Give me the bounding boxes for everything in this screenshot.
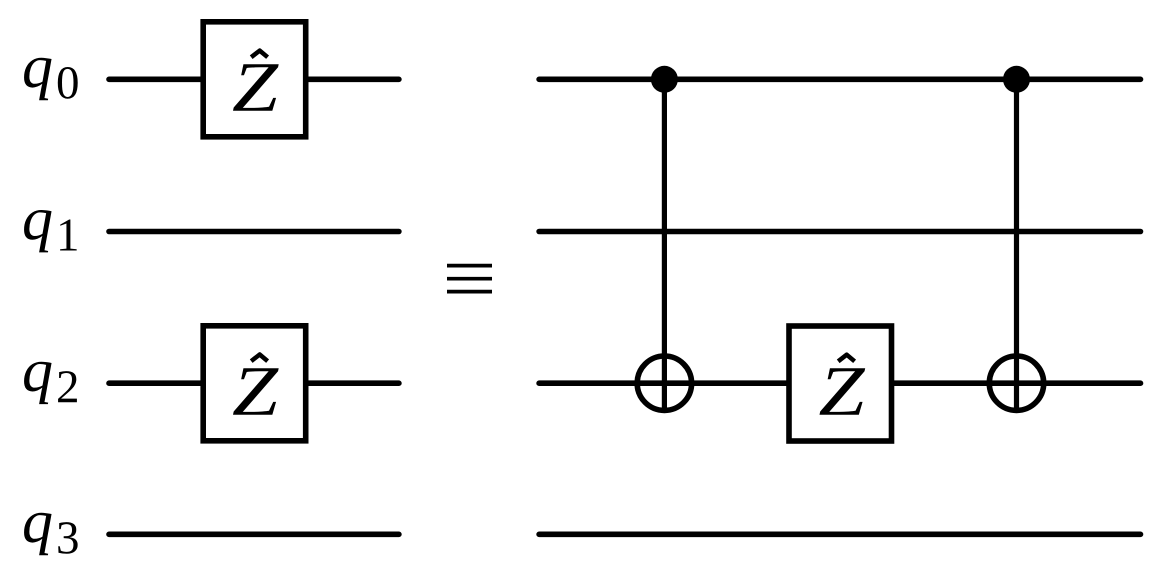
wire q2 right circuit [539,380,1140,386]
gate letter Z [233,368,279,414]
hat accent [251,51,267,58]
qubit label q1 [24,210,77,252]
gate letter Z [820,368,866,414]
hat accent [251,355,267,362]
CNOT target 2 on q2 [989,356,1043,410]
letter q [24,513,51,555]
gate box Z-hat on q0 left circuit [203,22,306,137]
gate box outline [203,22,306,137]
control dot CNOT 2 on q0 [1003,66,1030,93]
gate box Z-hat on q2 right circuit [789,326,892,441]
subscript 1 [60,219,77,250]
control line CNOT 1 [662,79,667,413]
subscript 2 [58,371,77,402]
wire q0 left circuit [109,77,399,83]
qubit label q3 [24,513,78,555]
control line CNOT 2 [1014,79,1019,413]
CNOT target 1 on q2 [637,356,691,410]
letter q [24,58,51,100]
wire q3 right circuit [539,531,1140,537]
gate letter Z [233,64,279,110]
control dot CNOT 1 on q0 [651,66,678,93]
subscript 0 [58,67,78,99]
subscript 3 [58,522,77,554]
wire q1 right circuit [539,229,1140,235]
wire q2 left circuit [109,380,399,386]
wire q1 left circuit [109,229,399,235]
gate box outline [203,326,306,441]
letter q [24,210,51,252]
qubit label q0 [24,58,78,100]
gate box outline [789,326,892,441]
wire q3 left circuit [109,531,399,537]
qubit label q2 [24,362,77,404]
letter q [24,362,51,404]
hat accent [838,355,854,362]
gate box Z-hat on q2 left circuit [203,326,306,441]
wire q0 right circuit [539,77,1140,83]
equivalence symbol [447,266,492,292]
